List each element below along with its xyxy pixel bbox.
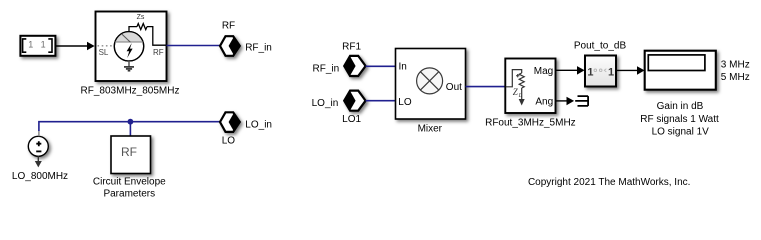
svg-text:Out: Out (446, 82, 462, 93)
svg-text:RF: RF (222, 21, 235, 32)
wire RF source to RF_in port (blue) (167, 45, 221, 47)
Circuit Envelope Parameters block (111, 136, 151, 174)
constant block [1 1] (20, 36, 55, 56)
svg-text:Gain in dB: Gain in dB (657, 101, 704, 112)
mixer circle with X (417, 68, 443, 94)
internal load wire (506, 70, 522, 87)
svg-text:RF_in: RF_in (245, 43, 272, 54)
svg-text:1: 1 (587, 66, 593, 78)
RF source block RF_803MHz_805MHz (96, 12, 167, 82)
svg-text:LO1: LO1 (342, 114, 361, 125)
gray port stub above LO source (38, 131, 40, 137)
source circle (114, 32, 143, 61)
port LO_in (output connection port) (220, 112, 240, 132)
LO source LO_800MHz (28, 136, 48, 167)
dotted SL port line (98, 45, 116, 47)
svg-text:Mag: Mag (534, 66, 553, 77)
svg-text:Mixer: Mixer (418, 124, 443, 135)
svg-text:RF_803MHz_805MHz: RF_803MHz_805MHz (81, 85, 180, 96)
svg-text:RF1: RF1 (342, 41, 361, 52)
branch wire to Circuit Envelope Parameters (129, 122, 131, 136)
wire constant to RF source with arrowhead (56, 42, 95, 51)
needle (122, 34, 131, 42)
ground (124, 61, 134, 71)
svg-text:Pout_to_dB: Pout_to_dB (574, 41, 627, 52)
svg-text:5 MHz: 5 MHz (721, 72, 750, 83)
port LO1 (input connection port) (344, 91, 365, 111)
Mixer block (396, 49, 466, 120)
display block (645, 51, 716, 90)
svg-text:3 MHz: 3 MHz (721, 60, 750, 71)
wire RF1 to mixer In (366, 65, 396, 67)
junction dot (127, 119, 133, 125)
RFout_3MHz_5MHz block (505, 59, 555, 114)
wire Mag to Pout_to_dB with arrowhead (556, 66, 585, 75)
wire Pout_to_dB to display with arrowhead (616, 66, 645, 75)
svg-text:1: 1 (608, 66, 614, 78)
svg-text:Circuit Envelope: Circuit Envelope (93, 177, 166, 188)
svg-text:LO signal 1V: LO signal 1V (652, 127, 710, 138)
svg-text:RF signals 1 Watt: RF signals 1 Watt (640, 114, 719, 125)
wire mixer Out to RFout (blue) (466, 86, 506, 88)
svg-text:Parameters: Parameters (103, 189, 155, 200)
svg-text:1: 1 (41, 40, 46, 50)
svg-text:1: 1 (28, 40, 33, 50)
lightning bolt (127, 43, 133, 58)
svg-text:LO_in: LO_in (312, 98, 339, 109)
port RF1 (input connection port) (344, 56, 365, 76)
plus sign (516, 74, 519, 77)
svg-text:LO_in: LO_in (245, 119, 272, 130)
svg-text:LO: LO (222, 136, 236, 147)
svg-text:L: L (518, 93, 523, 99)
internal resistor ZL (519, 73, 524, 88)
svg-text:Ang: Ang (535, 96, 553, 107)
svg-text:RF: RF (153, 48, 164, 57)
svg-text:RFout_3MHz_5MHz: RFout_3MHz_5MHz (485, 117, 576, 128)
svg-text:Zs: Zs (137, 14, 145, 21)
wire Ang to terminator with arrowhead (556, 97, 575, 106)
LO bus wire (blue) (39, 122, 220, 131)
svg-text:LO_800MHz: LO_800MHz (12, 171, 68, 182)
svg-text:In: In (399, 62, 407, 73)
svg-text:Copyright 2021 The MathWorks,: Copyright 2021 The MathWorks, Inc. (528, 177, 691, 188)
svg-text:LO: LO (398, 97, 412, 108)
internal wire to Zs resistor and RF pin (129, 24, 167, 46)
svg-text:SL: SL (99, 48, 109, 57)
port RF_in (output connection port) (220, 36, 240, 56)
svg-text:RF: RF (121, 145, 137, 159)
Pout_to_dB block (585, 56, 616, 87)
svg-text:RF_in: RF_in (313, 63, 340, 74)
wire LO1 to mixer LO (366, 100, 396, 102)
terminator (575, 96, 588, 106)
